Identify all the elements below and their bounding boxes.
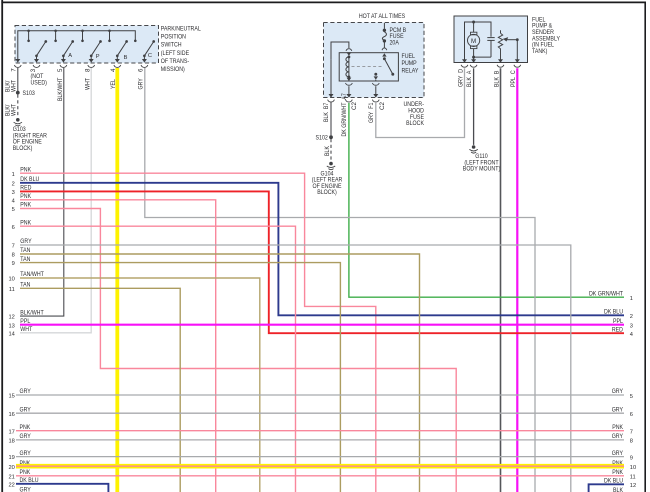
relay coil-armature dashed link <box>352 66 384 68</box>
fuel pump and sender assembly box <box>454 16 528 63</box>
svg-text:GRY: GRY <box>612 406 623 413</box>
relay coil <box>346 55 350 78</box>
switch common bus wire <box>18 31 136 60</box>
sender wiper arm <box>503 37 519 62</box>
svg-text:A: A <box>68 53 72 59</box>
relay switch contacts and arm <box>374 53 395 81</box>
svg-text:22: 22 <box>8 482 14 488</box>
pin 7 and wire label BLK/WHT leg 1 <box>5 68 18 92</box>
svg-text:C2: C2 <box>379 102 386 110</box>
fuse PCM B 20A label <box>390 27 407 47</box>
svg-text:DK GRN/WHT A7: DK GRN/WHT A7 <box>341 93 348 137</box>
pin 8 label WHT leg 4 <box>85 68 92 90</box>
wire row 8 TAN <box>12 247 420 492</box>
svg-text:TAN: TAN <box>20 247 30 254</box>
svg-text:BLK A: BLK A <box>466 70 473 87</box>
svg-text:PUMP: PUMP <box>402 60 417 67</box>
svg-text:7: 7 <box>630 430 633 436</box>
svg-text:FUEL: FUEL <box>402 53 416 60</box>
wire row 12 DK BLU right <box>589 478 637 492</box>
fuel pump motor M1 <box>468 22 480 57</box>
svg-text:TAN: TAN <box>20 282 30 289</box>
wire PPL pump pin C down off page <box>516 68 518 492</box>
svg-text:USED): USED) <box>31 80 47 87</box>
wire row 18/8 GRY <box>8 433 633 445</box>
fuse PCM B 20A <box>382 23 386 48</box>
svg-text:11: 11 <box>9 287 15 293</box>
svg-text:PPL: PPL <box>20 318 30 325</box>
wire GRY switch pin 6 down and across <box>145 68 535 492</box>
svg-text:DK BLU: DK BLU <box>20 477 39 484</box>
wire row 13 PPL <box>8 318 624 329</box>
svg-text:PARK/NEUTRAL: PARK/NEUTRAL <box>161 26 201 33</box>
svg-text:8: 8 <box>630 439 633 445</box>
wire row 20/10 YEL with PNK overlay <box>8 460 636 471</box>
svg-text:(LEFT SIDE: (LEFT SIDE <box>161 50 189 57</box>
svg-text:12: 12 <box>8 315 14 321</box>
svg-text:1: 1 <box>630 296 633 302</box>
fuel pump and sender assembly label <box>532 16 560 55</box>
svg-text:C2: C2 <box>351 102 358 110</box>
svg-text:C: C <box>148 53 152 59</box>
fuse block bottom connector terminals B7 A7 F1 <box>328 94 380 102</box>
ground G104 <box>327 162 335 170</box>
switch connector terminals at box bottom <box>14 59 147 67</box>
wire row 9 TAN <box>12 256 341 492</box>
wire relay switch output to pin F1 <box>375 86 377 95</box>
svg-text:S103: S103 <box>23 90 36 97</box>
svg-text:13: 13 <box>8 323 14 329</box>
splice S102 <box>329 135 333 139</box>
pin 4 label YEL leg 5 <box>110 68 117 89</box>
svg-text:GRY: GRY <box>20 406 31 413</box>
wire from relay coil top to fuse block pin B7 <box>331 42 349 59</box>
svg-text:7: 7 <box>10 68 17 72</box>
pump connector terminals D A B C <box>461 59 521 67</box>
svg-text:WHT: WHT <box>10 80 17 92</box>
svg-text:PPL C: PPL C <box>510 70 517 87</box>
svg-text:GRY: GRY <box>612 450 623 457</box>
relay pin connector marks <box>346 48 387 85</box>
svg-text:21: 21 <box>8 474 14 480</box>
svg-text:TAN/WHT: TAN/WHT <box>20 271 44 278</box>
svg-text:MISSION): MISSION) <box>161 66 185 73</box>
svg-text:PNK: PNK <box>20 424 32 431</box>
svg-text:5: 5 <box>12 207 15 213</box>
pin 6 label GRY leg 6 <box>138 68 145 90</box>
svg-text:6: 6 <box>138 68 145 72</box>
svg-text:GRY F1: GRY F1 <box>368 102 375 123</box>
svg-text:OF TRANS-: OF TRANS- <box>161 58 189 65</box>
wire row 22 DK BLU left <box>8 477 108 492</box>
svg-text:3: 3 <box>30 68 37 72</box>
svg-text:9: 9 <box>630 455 633 461</box>
wire relay coil bottom to pin A7 <box>348 86 350 95</box>
svg-text:BLOCK: BLOCK <box>406 120 425 127</box>
pump bottom node to pin A <box>472 56 491 62</box>
svg-text:GRY: GRY <box>20 388 31 395</box>
svg-text:GRY D: GRY D <box>457 68 464 87</box>
wire row 6 PNK <box>12 219 296 492</box>
svg-text:BODY MOUNT): BODY MOUNT) <box>463 166 500 173</box>
wire BLK pump pin A to ground G110 <box>473 68 475 145</box>
wire row 3 RED <box>12 185 624 334</box>
svg-text:20: 20 <box>8 465 14 471</box>
underhood fuse block box <box>324 23 425 98</box>
svg-text:17: 17 <box>8 429 14 435</box>
wire GRY fuse block F1 to pump pin D <box>376 68 465 137</box>
wire DK GRN/WHT relay pin A7 to right row 1 <box>349 103 624 297</box>
svg-text:S102: S102 <box>316 135 329 142</box>
wire row 7 GRY <box>12 238 571 492</box>
wire row 2 DK BLU <box>12 176 624 315</box>
pin 3 label (NOT USED) leg 2 <box>30 68 47 87</box>
wire row 16/6 GRY <box>8 406 633 418</box>
right row 2 label DK BLU <box>604 309 633 321</box>
wire BLK pump pin B down off page <box>500 68 502 492</box>
svg-text:5: 5 <box>630 394 633 400</box>
svg-text:B: B <box>124 55 128 61</box>
svg-text:3: 3 <box>12 190 15 196</box>
svg-text:11: 11 <box>630 475 636 481</box>
svg-text:6: 6 <box>12 225 15 231</box>
right row 4 label RED <box>612 326 633 338</box>
svg-text:20A: 20A <box>390 40 400 47</box>
svg-text:18: 18 <box>8 439 14 445</box>
svg-text:BLK: BLK <box>613 487 624 492</box>
svg-text:DK BLU: DK BLU <box>20 176 39 183</box>
svg-text:12: 12 <box>630 483 636 489</box>
right row 1 label DK GRN/WHT <box>589 290 633 302</box>
svg-text:BLK/WHT: BLK/WHT <box>20 309 44 316</box>
svg-text:15: 15 <box>8 394 14 400</box>
fuel pump relay box <box>339 53 398 81</box>
wire row 1 PNK <box>12 166 376 492</box>
ground G103 <box>14 118 22 126</box>
svg-text:BLK B7: BLK B7 <box>323 102 330 122</box>
svg-text:PNK: PNK <box>20 193 32 200</box>
svg-text:BLK: BLK <box>324 145 331 156</box>
wire YEL switch pin 4 down off page <box>115 68 119 492</box>
wire row 19/9 GRY <box>8 450 633 462</box>
svg-text:4: 4 <box>12 198 15 204</box>
ground G103 label <box>13 126 48 152</box>
ground G104 label <box>312 170 343 196</box>
svg-text:RELAY: RELAY <box>402 67 419 74</box>
wire row 21/11 PNK <box>8 469 635 481</box>
svg-text:RED: RED <box>612 326 624 333</box>
svg-text:10: 10 <box>630 465 636 471</box>
svg-text:BLK/WHT: BLK/WHT <box>57 77 64 101</box>
svg-text:GRY: GRY <box>20 238 31 245</box>
wire BLK/WHT switch pin 5 to left row 12 <box>20 68 64 316</box>
svg-text:BLK B: BLK B <box>493 71 500 87</box>
svg-text:16: 16 <box>8 412 14 418</box>
svg-text:14: 14 <box>8 331 14 337</box>
svg-text:DK BLU: DK BLU <box>604 478 623 485</box>
pump internal supply wire and top node <box>465 22 492 62</box>
wire BLK/WHT S103 to ground G103 (dashed) <box>17 95 19 118</box>
label BLK/WHT on ground wire <box>5 104 18 116</box>
pump noise suppressor capacitor <box>487 38 494 58</box>
park/neutral position switch label <box>161 26 201 74</box>
svg-text:RED: RED <box>20 185 32 192</box>
svg-text:P: P <box>96 54 100 60</box>
svg-text:BLOCK): BLOCK) <box>317 189 337 196</box>
wire row 11 TAN <box>9 282 180 492</box>
wire row 17/7 PNK <box>8 424 633 436</box>
svg-text:6: 6 <box>630 412 633 418</box>
svg-text:PNK: PNK <box>20 202 32 209</box>
svg-text:2: 2 <box>12 181 15 187</box>
svg-text:WHT: WHT <box>20 326 32 333</box>
svg-text:2: 2 <box>630 314 633 320</box>
wire row 5 PNK <box>12 202 457 492</box>
wire BLK/WHT from pin 7 to splice S103 <box>17 68 19 91</box>
svg-text:DK BLU: DK BLU <box>604 309 623 316</box>
svg-text:10: 10 <box>8 277 14 283</box>
svg-text:BLOCK): BLOCK) <box>13 145 33 152</box>
wire row 4 PNK <box>12 193 216 492</box>
switch position letters A P B C <box>68 53 152 61</box>
left row 12 BLK/WHT label <box>8 309 43 320</box>
wire row 10 TAN/WHT <box>8 271 259 492</box>
svg-text:PNK: PNK <box>612 469 624 476</box>
underhood fuse block label <box>404 101 425 127</box>
svg-text:PNK: PNK <box>612 424 624 431</box>
svg-text:POSITION: POSITION <box>161 34 186 41</box>
svg-text:TANK): TANK) <box>532 48 547 55</box>
ground G110 label <box>463 153 500 173</box>
svg-text:PNK: PNK <box>20 469 32 476</box>
wire BLK from pin B7 to splice S102 <box>330 102 332 135</box>
svg-text:DK GRN/WHT: DK GRN/WHT <box>589 290 623 297</box>
svg-text:1: 1 <box>12 172 15 178</box>
wire BLK S102 to ground G104 (dashed) <box>330 139 332 161</box>
pin 5 label BLK/WHT leg 3 <box>57 68 64 101</box>
fuel level sender resistor <box>498 30 502 62</box>
svg-text:4: 4 <box>630 332 633 338</box>
wire row 15/5 GRY <box>8 388 633 400</box>
svg-text:M: M <box>471 38 476 45</box>
svg-text:9: 9 <box>12 261 15 267</box>
fuel pump relay label <box>402 53 419 75</box>
park/neutral position switch S1 box <box>15 26 159 64</box>
svg-text:SWITCH: SWITCH <box>161 42 182 49</box>
svg-text:7: 7 <box>12 244 15 250</box>
left row 14 WHT label <box>8 326 32 337</box>
svg-text:GRY: GRY <box>20 487 31 492</box>
svg-text:GRY: GRY <box>20 433 31 440</box>
svg-text:19: 19 <box>8 455 14 461</box>
switch movable arms <box>35 40 155 59</box>
wire WHT switch pin 8 to left row 14 <box>20 68 91 333</box>
svg-text:GRY: GRY <box>612 388 623 395</box>
svg-text:5: 5 <box>57 68 64 72</box>
svg-text:TAN: TAN <box>20 256 30 263</box>
svg-text:3: 3 <box>630 324 633 330</box>
svg-text:8: 8 <box>12 253 15 259</box>
svg-text:PPL: PPL <box>613 318 623 325</box>
switch fixed contact drops <box>27 30 136 43</box>
svg-text:WHT: WHT <box>10 104 17 116</box>
svg-text:GRY: GRY <box>138 78 145 89</box>
right row 3 label PPL <box>613 318 633 330</box>
svg-text:HOT AT ALL TIMES: HOT AT ALL TIMES <box>359 13 405 20</box>
svg-text:PNK: PNK <box>20 166 32 173</box>
svg-text:GRY: GRY <box>20 450 31 457</box>
svg-text:GRY: GRY <box>612 433 623 440</box>
splice S103 <box>16 91 20 95</box>
ground G110 <box>469 145 477 153</box>
svg-text:PNK: PNK <box>20 219 32 226</box>
